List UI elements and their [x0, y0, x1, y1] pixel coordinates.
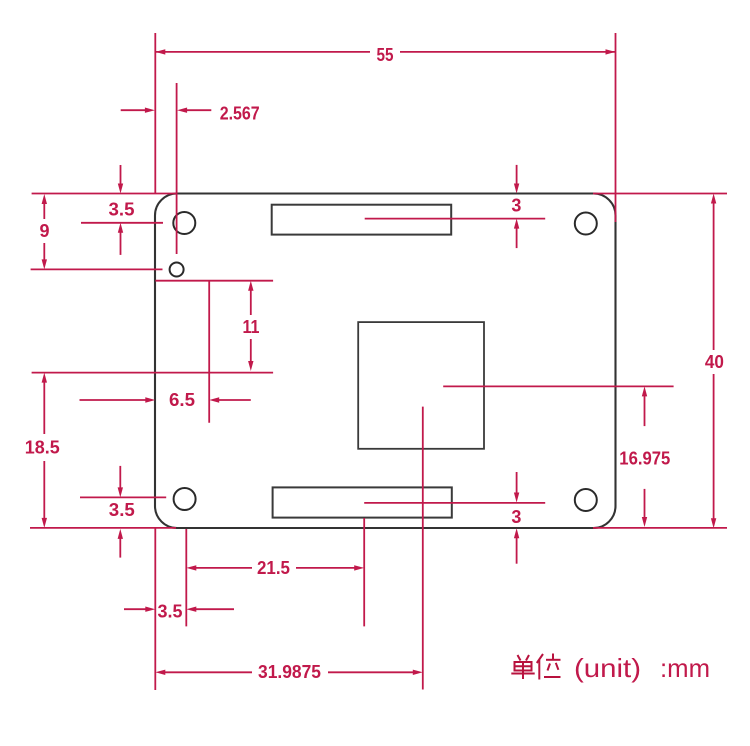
svg-text:(unit): (unit)	[574, 653, 641, 683]
ext line top edge right	[593, 193, 727, 195]
arrow 3.5 top down	[118, 184, 123, 194]
leader top slot	[365, 218, 546, 220]
hole bottom-left	[174, 488, 196, 510]
arrow 18.5 down	[42, 518, 47, 528]
dim 31.9875 line	[165, 671, 252, 673]
ext line right edge top	[615, 33, 617, 222]
hole bottom-right	[575, 489, 597, 511]
bottom slot	[273, 487, 452, 517]
ext line top edge left	[32, 193, 176, 195]
svg-text:3.5: 3.5	[158, 602, 183, 622]
svg-text:40: 40	[705, 352, 724, 372]
arrowheads	[42, 49, 717, 675]
leader bottom slot	[364, 502, 545, 504]
dim 9 line	[43, 204, 45, 220]
ext line bottom edge left	[30, 527, 176, 529]
arrow 55 left	[155, 49, 165, 54]
ext line left edge bottom	[154, 528, 156, 690]
arrow 40 up	[711, 194, 716, 204]
arrow 3 bottom up	[514, 528, 519, 538]
dim 55 line	[155, 51, 370, 53]
arrow 9 up	[42, 194, 47, 204]
arrow 21.5 right	[354, 565, 364, 570]
dim 11 line	[250, 290, 252, 315]
ext line chip center vertical	[422, 407, 424, 690]
arrow 3 bottom down	[514, 493, 519, 503]
ext line small hole vertical	[176, 83, 178, 254]
ext line hole BL vertical	[185, 529, 187, 626]
arrow 3.5 bottom left	[186, 607, 196, 612]
dim 21.5 line	[196, 567, 252, 569]
ext line y280	[155, 280, 273, 282]
top slot	[272, 205, 452, 235]
arrow 9 down	[42, 259, 47, 269]
svg-text:3: 3	[511, 196, 521, 216]
svg-text:3: 3	[511, 507, 521, 527]
arrow 6.5 left	[209, 397, 219, 402]
ext line hole BL center	[80, 496, 166, 498]
svg-text:3.5: 3.5	[109, 500, 135, 520]
svg-text:9: 9	[39, 221, 49, 241]
unit note	[511, 653, 710, 683]
svg-text:2.567: 2.567	[220, 104, 260, 124]
leader chip center	[443, 385, 673, 387]
arrow 11 up	[248, 281, 253, 291]
svg-text:3.5: 3.5	[109, 200, 135, 220]
svg-text:11: 11	[243, 317, 260, 337]
arrow 21.5 left	[186, 565, 196, 570]
dim 16.975 stems	[644, 396, 646, 426]
arrow 16.975 down	[642, 517, 647, 527]
dim 40 line	[713, 203, 715, 350]
dim 3.5 bl stems	[119, 466, 121, 488]
arrow 2.567 left	[145, 108, 155, 113]
arrow 40 down	[711, 518, 716, 528]
arrow 6.5 right	[145, 397, 155, 402]
hole top-left	[173, 212, 195, 234]
arrow 31.9875 right	[413, 670, 423, 675]
hanzi dan	[511, 655, 534, 679]
svg-text:6.5: 6.5	[169, 390, 195, 410]
ext line bottom edge right	[593, 527, 727, 529]
arrow 31.9875 left	[155, 670, 165, 675]
arrow 3.5 top up	[118, 223, 123, 233]
svg-text:21.5: 21.5	[257, 558, 290, 578]
dim 6.5 lines	[80, 399, 146, 401]
svg-text:16.975: 16.975	[619, 449, 670, 469]
arrow 55 right	[606, 49, 616, 54]
ext line y372	[32, 372, 274, 374]
dim 3.5 bottom lines	[124, 608, 146, 610]
chip square	[358, 322, 484, 449]
dim 3 bottom stems	[516, 472, 518, 493]
dim 2.567 lines	[121, 109, 146, 111]
arrow 3.5 bl up	[118, 529, 123, 539]
hanzi wei	[537, 654, 561, 680]
dim 3 top stems	[516, 165, 518, 184]
svg-text:31.9875: 31.9875	[258, 662, 321, 682]
svg-text:55: 55	[377, 45, 394, 65]
arrow 3.5 bl down	[118, 487, 123, 497]
arrow 11 down	[248, 361, 253, 371]
ext line hole TL center	[81, 222, 163, 224]
svg-text::mm: :mm	[660, 653, 710, 683]
dim 18.5 line	[43, 382, 45, 434]
arrow 3 top up	[514, 219, 519, 229]
svg-text:18.5: 18.5	[25, 438, 60, 458]
board outline	[155, 194, 616, 529]
ext line x209	[208, 281, 210, 423]
arrow 3.5 bottom right	[145, 607, 155, 612]
arrow 16.975 up	[642, 386, 647, 396]
ext line left edge top	[154, 33, 156, 194]
hole top-right	[575, 213, 597, 235]
arrow 3 top down	[514, 184, 519, 194]
arrow 2.567 right	[177, 108, 187, 113]
dim 3.5 top stems	[120, 165, 122, 184]
ext line x364	[363, 518, 365, 626]
ext line small hole center	[31, 268, 163, 270]
small hole	[170, 263, 184, 277]
arrow 18.5 up	[42, 373, 47, 383]
